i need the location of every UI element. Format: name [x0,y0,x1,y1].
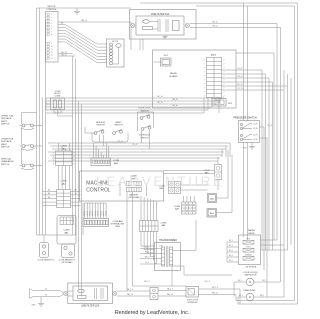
svg-text:14: 14 [51,58,53,60]
svg-text:BLEACH: BLEACH [245,254,253,257]
svg-text:11: 11 [51,49,53,51]
svg-text:8: 8 [74,163,75,165]
svg-text:BK_34: BK_34 [95,211,97,216]
svg-text:12: 12 [51,52,53,54]
svg-text:WH_13: WH_13 [172,99,177,101]
svg-text:BK_1.5: BK_1.5 [212,287,218,289]
svg-text:(OPTIONAL): (OPTIONAL) [62,261,73,264]
svg-text:BK_14: BK_14 [61,54,66,56]
svg-text:BK_10: BK_10 [212,22,217,24]
svg-text:CONN: CONN [161,222,167,224]
svg-text:RD_2: RD_2 [145,247,149,249]
svg-text:UPPER TUB: UPPER TUB [1,116,13,118]
svg-text:SWITCH: SWITCH [1,164,10,166]
svg-text:10: 10 [51,46,53,48]
svg-text:CONN: CONN [55,96,61,98]
svg-text:CONN: CONN [60,180,67,182]
svg-text:VAULT: VAULT [115,121,122,124]
svg-text:BK_37: BK_37 [103,211,105,216]
svg-text:CONTROL: CONTROL [46,9,57,11]
svg-text:BK_30: BK_30 [84,211,86,216]
svg-text:4: 4 [53,156,54,158]
svg-text:WH_11: WH_11 [212,26,218,28]
svg-text:21_PK: 21_PK [253,124,258,126]
svg-text:13: 13 [51,55,53,57]
svg-text:PK_21: PK_21 [238,68,243,70]
svg-text:BK_35: BK_35 [98,211,100,216]
svg-text:16_BU: 16_BU [253,139,258,141]
svg-text:M: M [249,281,251,284]
svg-text:SERVICE: SERVICE [96,122,106,124]
svg-text:BK_36: BK_36 [100,211,102,216]
svg-text:WH_1: WH_1 [260,295,264,297]
svg-text:VERTICAL: VERTICAL [1,158,12,161]
svg-text:CONN AA3: CONN AA3 [112,220,123,223]
svg-text:UNBALANCE: UNBALANCE [1,160,14,163]
svg-text:21_PK: 21_PK [253,135,258,137]
svg-text:BK_32: BK_32 [90,211,92,216]
svg-text:BK_1: BK_1 [239,295,243,297]
svg-text:4: 4 [53,153,54,155]
svg-text:VALVE: VALVE [248,232,255,235]
svg-text:BU_1: BU_1 [229,260,233,262]
svg-text:CONN: CONN [63,229,70,231]
svg-text:SWITCH: SWITCH [96,125,105,127]
svg-text:BU: BU [48,197,50,199]
svg-text:GY_23: GY_23 [238,88,243,90]
svg-text:SWITCH: SWITCH [1,124,10,126]
svg-text:LINE FILTER 15A: LINE FILTER 15A [81,305,100,308]
svg-text:CO-IN SENSOR #1: CO-IN SENSOR #1 [38,259,55,261]
svg-text:MENT: MENT [1,121,8,123]
svg-text:DOOR LOCK: DOOR LOCK [138,108,151,110]
svg-text:GY: GY [74,193,76,195]
svg-text:Rendered by LeadVenture, Inc.: Rendered by LeadVenture, Inc. [115,310,190,316]
svg-text:BU_1: BU_1 [229,240,233,242]
svg-text:SWITCH: SWITCH [141,137,149,139]
svg-text:PRESSURE SWITCH: PRESSURE SWITCH [233,117,257,120]
svg-text:WH_1.5: WH_1.5 [167,294,173,296]
svg-text:8: 8 [74,153,75,155]
svg-text:RD_22: RD_22 [238,84,243,86]
svg-text:LEADVENTURE: LEADVENTURE [96,174,224,189]
svg-text:TRANSFORMER: TRANSFORMER [159,239,177,242]
svg-text:BATTERY: BATTERY [129,193,139,196]
svg-text:BK: BK [48,190,50,192]
svg-text:PK_21: PK_21 [133,144,138,146]
svg-text:PK_21: PK_21 [268,125,273,127]
svg-text:CONN: CONN [204,170,210,172]
svg-text:8: 8 [74,160,75,162]
svg-text:WATER: WATER [248,229,256,232]
svg-text:BU_1: BU_1 [238,280,242,282]
svg-text:BU_1: BU_1 [229,255,233,257]
svg-text:BK_1.5: BK_1.5 [144,281,149,283]
svg-text:BK_1.5: BK_1.5 [127,289,133,291]
svg-text:RD_12: RD_12 [158,102,163,104]
svg-text:16_BU: 16_BU [253,128,258,130]
svg-text:CARD: CARD [115,225,121,228]
svg-text:DISPLACE-: DISPLACE- [1,140,12,143]
svg-text:EXTERNAL SER.: EXTERNAL SER. [110,223,125,226]
svg-text:4: 4 [53,163,54,165]
svg-text:OR_1.5: OR_1.5 [204,281,210,283]
svg-text:CONN: CONN [174,206,180,208]
svg-text:DRAIN PUMP: DRAIN PUMP [244,289,257,292]
svg-text:M: M [249,296,251,299]
svg-text:BK_2: BK_2 [145,252,149,254]
svg-text:BK_38: BK_38 [106,211,108,216]
svg-text:BU_1: BU_1 [229,250,233,252]
svg-text:GND: GND [32,305,37,307]
svg-text:8: 8 [74,156,75,158]
svg-text:(OPTIONAL): (OPTIONAL) [128,196,140,199]
svg-text:WH: WH [74,190,77,192]
svg-text:BK_1.5: BK_1.5 [167,289,173,291]
svg-text:WAX MOTOR: WAX MOTOR [245,274,257,277]
svg-text:MOTOR: MOTOR [112,41,119,43]
svg-text:SWITCH: SWITCH [1,147,10,149]
svg-text:BK_33: BK_33 [92,211,94,216]
svg-text:YL_2: YL_2 [145,262,149,264]
svg-text:CONN: CONN [60,146,67,148]
svg-text:CONN: CONN [113,160,120,162]
svg-text:4: 4 [53,160,54,162]
svg-text:BK_31: BK_31 [87,211,89,216]
svg-text:RELAY: RELAY [170,72,178,75]
svg-text:SWITCH: SWITCH [114,125,123,127]
svg-text:WH_13: WH_13 [81,20,87,22]
svg-text:DISPLACE-: DISPLACE- [1,117,12,120]
svg-text:WH_1.5: WH_1.5 [127,294,133,296]
svg-text:LINE FILTER 10A: LINE FILTER 10A [151,13,170,16]
svg-text:OR_1: OR_1 [262,280,266,282]
svg-text:WH_1.5: WH_1.5 [212,293,218,295]
svg-text:MENT: MENT [1,144,8,146]
svg-text:WH_2: WH_2 [145,257,150,259]
svg-text:BU_16: BU_16 [173,105,178,107]
svg-text:OR_24: OR_24 [237,76,242,78]
svg-text:LOWER TUB: LOWER TUB [1,139,14,141]
svg-text:DOOR (LID): DOOR (LID) [139,135,150,137]
svg-text:BK_14: BK_14 [158,96,163,98]
svg-text:SOLENOID: SOLENOID [188,302,198,304]
svg-text:BU_1: BU_1 [229,245,233,247]
svg-text:BOARD: BOARD [170,75,178,78]
